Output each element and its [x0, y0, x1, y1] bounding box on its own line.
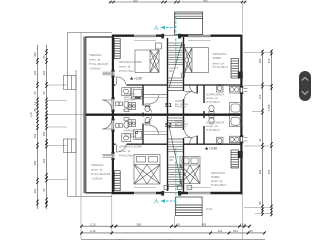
- svg-text:P=4,82m²: P=4,82m²: [124, 98, 135, 102]
- svg-text:160: 160: [42, 131, 46, 136]
- svg-text:+2,90: +2,90: [209, 147, 217, 151]
- svg-text:313: 313: [258, 94, 262, 99]
- svg-text:P=15,79m²: P=15,79m²: [119, 69, 134, 73]
- svg-text:TERASA: TERASA: [91, 163, 104, 167]
- svg-text:P=9,60m²: P=9,60m²: [175, 125, 186, 129]
- svg-text:332: 332: [33, 70, 37, 75]
- svg-text:±0,00: ±0,00: [206, 208, 213, 211]
- svg-text:350: 350: [33, 160, 37, 165]
- svg-text:455: 455: [202, 222, 207, 226]
- svg-text:550: 550: [133, 0, 138, 3]
- svg-text:55: 55: [42, 55, 46, 58]
- svg-text:300: 300: [42, 70, 46, 75]
- svg-text:<2,85m²: <2,85m²: [91, 177, 102, 181]
- svg-text:P=16,05m²: P=16,05m²: [211, 183, 226, 187]
- svg-text:A: A: [154, 25, 159, 32]
- svg-text:390: 390: [258, 58, 262, 63]
- svg-text:05: 05: [33, 91, 37, 94]
- svg-text:P=5,92m²: P=5,92m²: [206, 100, 220, 104]
- svg-text:P=16,05m²: P=16,05m²: [119, 154, 134, 158]
- svg-text:1,25: 1,25: [30, 111, 33, 116]
- svg-text:415: 415: [267, 58, 271, 63]
- svg-text:SPAVAĆA SOBA: SPAVAĆA SOBA: [119, 144, 143, 149]
- svg-text:142: 142: [218, 229, 223, 233]
- svg-text:25: 25: [42, 91, 46, 94]
- svg-text:644: 644: [233, 229, 238, 233]
- svg-text:332: 332: [33, 133, 37, 138]
- svg-text:410: 410: [267, 169, 271, 174]
- svg-text:S2: S2: [165, 123, 172, 129]
- svg-text:+2,90: +2,90: [134, 77, 142, 81]
- svg-text:455: 455: [203, 0, 208, 3]
- svg-text:teren: pl.: teren: pl.: [89, 58, 101, 62]
- svg-text:1,046: 1,046: [267, 104, 271, 111]
- svg-text:P=11,40x0,25: P=11,40x0,25: [89, 62, 108, 66]
- svg-text:/28: /28: [169, 158, 173, 162]
- svg-text:/28: /28: [169, 69, 173, 73]
- svg-text:P=9,60m²: P=9,60m²: [175, 105, 186, 109]
- svg-text:2,10: 2,10: [90, 222, 96, 226]
- svg-text:93: 93: [250, 229, 254, 233]
- svg-text:383: 383: [33, 188, 37, 193]
- svg-text:P=4,82m²: P=4,82m²: [124, 134, 135, 138]
- svg-text:<2,85m²: <2,85m²: [89, 67, 100, 71]
- svg-text:teren: pl.: teren: pl.: [119, 65, 131, 69]
- svg-text:383: 383: [33, 52, 37, 57]
- svg-text:SPAVAĆA SOBA: SPAVAĆA SOBA: [119, 59, 143, 64]
- svg-text:P=14,35m²: P=14,35m²: [213, 65, 228, 69]
- svg-text:P=5,82m²: P=5,82m²: [206, 128, 220, 132]
- svg-text:550: 550: [137, 222, 142, 226]
- svg-text:S1: S1: [165, 103, 172, 109]
- svg-text:394: 394: [258, 169, 262, 174]
- svg-text:13: 13: [33, 102, 37, 105]
- svg-text:2,16: 2,16: [90, 229, 96, 233]
- svg-text:SOBA: SOBA: [213, 56, 223, 60]
- svg-text:95: 95: [177, 222, 181, 226]
- svg-text:TERASA: TERASA: [89, 53, 102, 57]
- svg-text:42: 42: [258, 138, 262, 141]
- svg-text:teren: pl.: teren: pl.: [91, 168, 103, 172]
- svg-text:55: 55: [42, 188, 46, 191]
- svg-text:P=11,40x0,25: P=11,40x0,25: [91, 172, 110, 176]
- svg-text:95: 95: [258, 201, 262, 204]
- svg-text:2,10: 2,10: [240, 222, 246, 226]
- svg-text:teren: pl.: teren: pl.: [119, 149, 131, 153]
- svg-text:165: 165: [42, 158, 46, 163]
- svg-text:A: A: [154, 199, 159, 206]
- svg-text:65: 65: [33, 108, 37, 111]
